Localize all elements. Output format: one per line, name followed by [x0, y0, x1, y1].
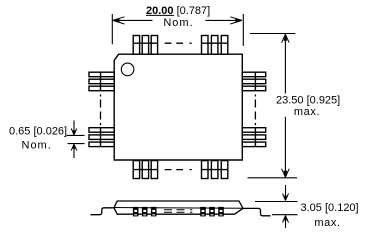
dimension 3.05: lower tick	[272, 214, 298, 216]
side view inner lead-frame lines	[114, 207, 243, 210]
side view left lead	[91, 208, 115, 215]
top lead group left	[133, 36, 157, 55]
right centerline (dash-dot)	[254, 95, 256, 126]
svg-text:max.: max.	[314, 217, 340, 229]
dimension 20.00: left extension line	[111, 14, 113, 44]
label Nom. (top)	[163, 17, 193, 29]
svg-text:max.: max.	[294, 106, 320, 118]
bottom centerline (dash-dot)	[165, 169, 192, 171]
bottom lead group left	[133, 161, 157, 179]
svg-text:Nom.: Nom.	[163, 17, 193, 29]
label 3.05 [0.120]	[301, 202, 359, 214]
svg-text:Nom.: Nom.	[22, 140, 52, 152]
dimension 0.65: arrows	[71, 121, 77, 159]
dimension 23.50: dimension line with arrows	[282, 34, 290, 177]
package body (top view)	[114, 54, 242, 160]
side view lead stack left group	[133, 207, 157, 217]
dimension 0.65: extension lines	[67, 135, 85, 143]
left lead group upper	[89, 72, 114, 91]
label 20.00 [0.787]	[146, 5, 210, 17]
svg-text:23.50 [0.925]: 23.50 [0.925]	[276, 94, 340, 106]
dimension 23.50: top tick	[250, 33, 295, 35]
top centerline (dash-dot)	[165, 42, 192, 44]
label 0.65 [0.026]	[9, 125, 67, 137]
label max. (bottom)	[314, 217, 340, 229]
pin-1 index circle	[121, 63, 134, 76]
left lead group lower	[89, 128, 114, 147]
side view body outline	[114, 201, 243, 214]
right lead group upper	[242, 72, 265, 91]
side view lead stack right group	[200, 207, 224, 217]
dimension 20.00: right extension line	[242, 14, 244, 46]
left centerline (dash-dot)	[100, 95, 102, 126]
bottom lead group right	[202, 161, 228, 179]
svg-text:3.05 [0.120]: 3.05 [0.120]	[301, 202, 359, 214]
side view right lead	[243, 208, 271, 215]
top lead group right	[202, 36, 228, 55]
right lead group lower	[242, 128, 265, 147]
svg-text:0.65 [0.026]: 0.65 [0.026]	[9, 125, 67, 137]
label Nom. (left)	[22, 140, 52, 152]
label max. (right)	[294, 106, 320, 118]
dimension 3.05: arrows	[283, 185, 289, 228]
side view centerline (double dash rows)	[164, 210, 192, 213]
dimension 3.05: upper tick	[255, 201, 298, 203]
dimension 23.50: bottom tick	[248, 177, 298, 179]
dimension 20.00: dimension line with arrows	[113, 17, 242, 24]
label 23.50 [0.925]	[276, 94, 340, 106]
